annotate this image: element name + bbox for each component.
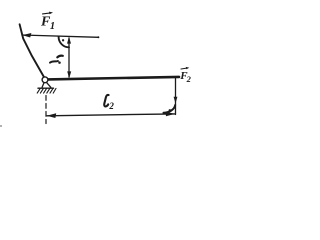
svg-text:2: 2 — [186, 74, 192, 84]
svg-text:1: 1 — [50, 21, 55, 32]
svg-text:2: 2 — [108, 101, 114, 111]
